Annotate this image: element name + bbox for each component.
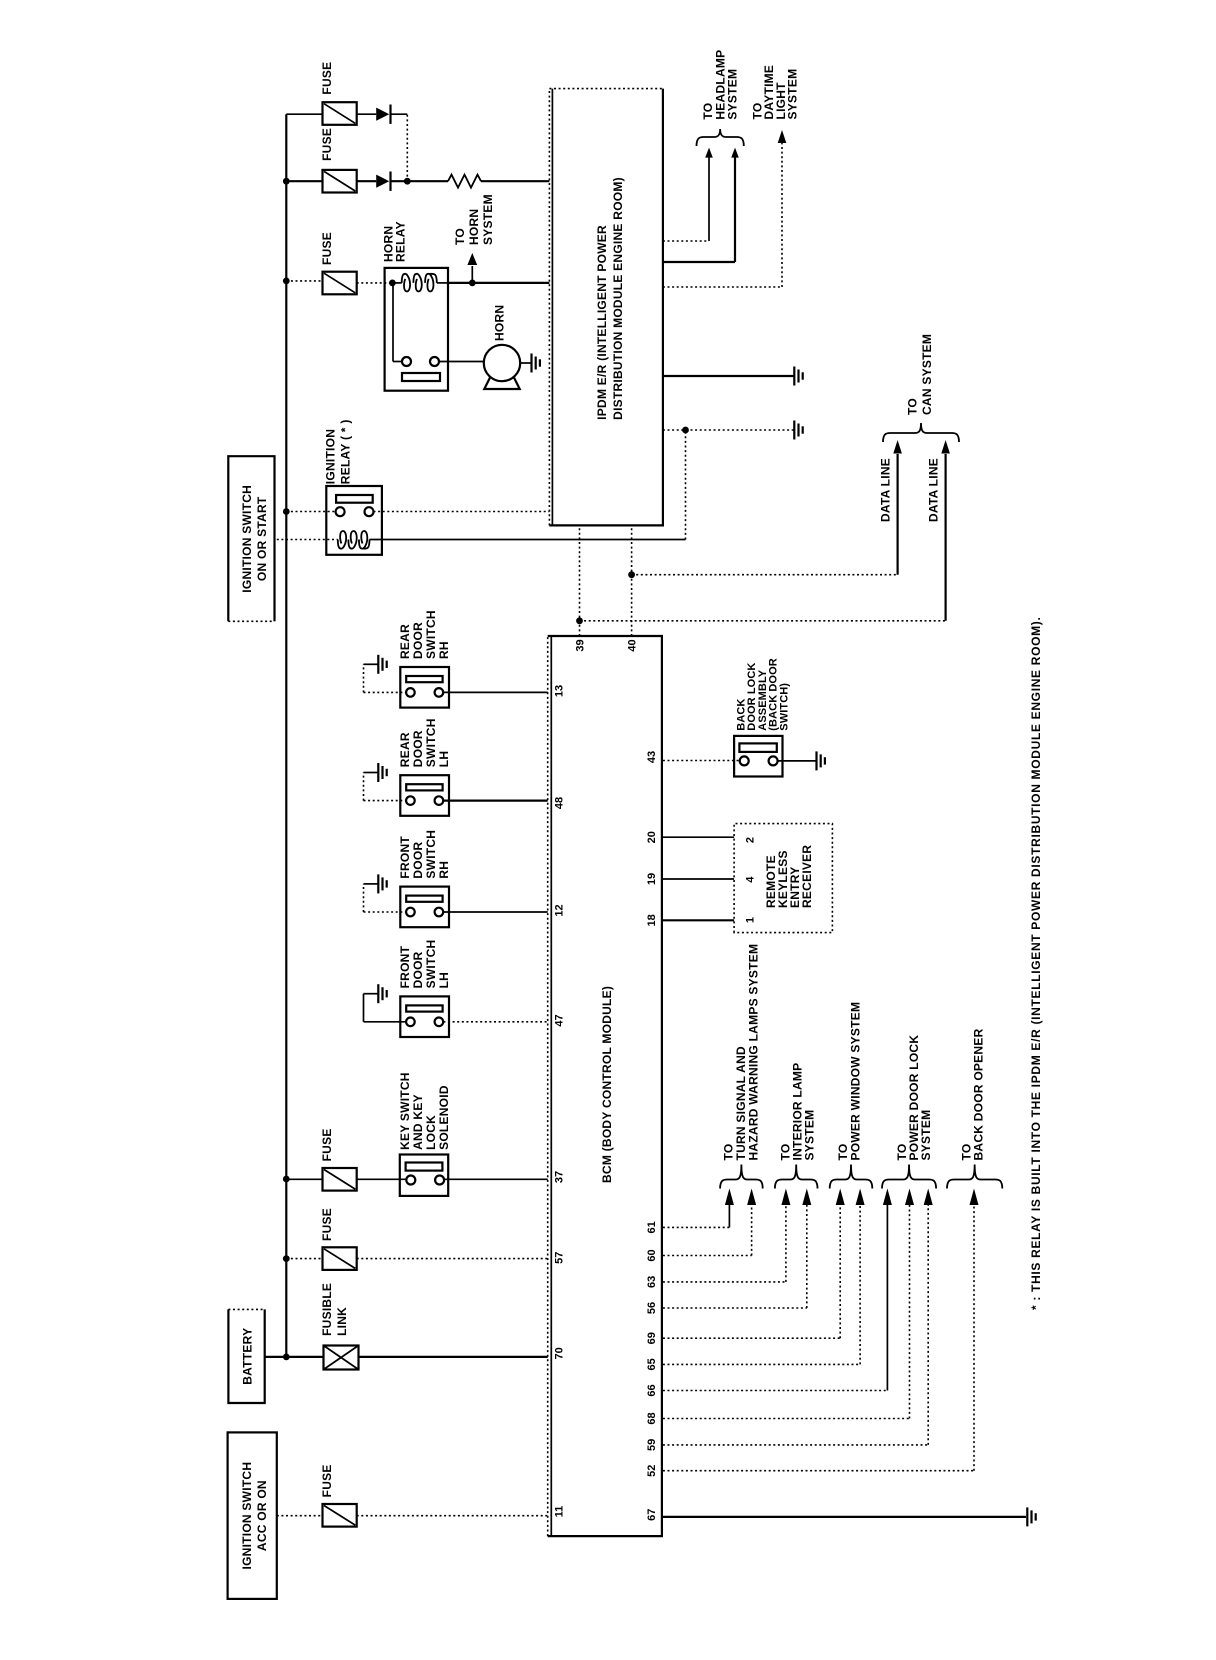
svg-text:FUSE: FUSE xyxy=(320,62,334,95)
wire bus to ignition relay contact xyxy=(286,511,335,513)
svg-text:DOOR: DOOR xyxy=(411,842,425,879)
wire IPDM to daytime arrow xyxy=(663,286,782,288)
front door switch RH xyxy=(400,887,449,928)
wire data line 1 to CAN arrow xyxy=(896,454,898,575)
svg-text:IGNITION: IGNITION xyxy=(324,429,338,484)
svg-text:HORN: HORN xyxy=(467,209,481,245)
arrow daytime light xyxy=(778,130,787,143)
svg-text:SWITCH: SWITCH xyxy=(424,830,438,879)
wire fuse to key switch xyxy=(357,1178,406,1180)
wire rear door switch LH to ground xyxy=(364,800,406,802)
svg-text:SYSTEM: SYSTEM xyxy=(919,1110,933,1161)
brace turn signal group xyxy=(720,1165,763,1189)
wire BCM pin 65 run to arrow xyxy=(859,1203,861,1364)
arrow pin 65 xyxy=(856,1189,865,1206)
svg-text:IPDM E/R (INTELLIGENT POWER: IPDM E/R (INTELLIGENT POWER xyxy=(595,225,609,420)
arrow pin 59 xyxy=(924,1189,933,1206)
svg-text:LOCK: LOCK xyxy=(424,1115,438,1150)
svg-text:DATA LINE: DATA LINE xyxy=(927,458,941,522)
wire rear door switch RH to ground xyxy=(364,691,406,693)
wire to horn system arrow xyxy=(471,266,473,283)
node bus-ignition-relay junction xyxy=(283,508,290,515)
svg-text:REAR: REAR xyxy=(398,732,412,767)
ground (front door switch RH) xyxy=(377,874,379,893)
ground (BCM pin 67) xyxy=(1026,1507,1028,1526)
BCM (body control module) box xyxy=(548,636,662,1536)
svg-text:AND KEY: AND KEY xyxy=(411,1094,425,1150)
svg-text:18: 18 xyxy=(646,914,658,926)
wire BCM pin 66 run to arrow xyxy=(886,1203,888,1391)
node bus-key-switch-fuse junction xyxy=(283,1176,290,1183)
svg-text:40: 40 xyxy=(627,639,639,651)
wire bus to fusible link xyxy=(286,1356,323,1358)
svg-text:DOOR: DOOR xyxy=(411,951,425,988)
svg-text:12: 12 xyxy=(553,904,565,916)
ground (IPDM 1) xyxy=(793,367,795,386)
wire fusible link to BCM pin 70 xyxy=(359,1356,548,1358)
front door switch LH xyxy=(400,996,449,1037)
fuse (ignition ACC) xyxy=(323,1504,357,1527)
svg-text:LH: LH xyxy=(437,751,451,768)
node bus-fuse3 junction xyxy=(283,278,290,285)
fuse (diode 1) xyxy=(323,102,357,125)
wire front door switch RH to ground xyxy=(364,911,406,913)
ground (rear door switch RH) xyxy=(377,655,379,674)
wire BCM pin18 to receiver pin1 xyxy=(663,919,734,921)
svg-text:IGNITION SWITCH: IGNITION SWITCH xyxy=(240,1462,254,1570)
wire IPDM ground 2 xyxy=(663,429,794,431)
svg-text:57: 57 xyxy=(553,1252,565,1264)
svg-text:DOOR: DOOR xyxy=(411,622,425,659)
wire BCM pin 67 to ground xyxy=(663,1516,1026,1518)
node battery junction xyxy=(283,1354,290,1361)
wire horn relay to IPDM xyxy=(448,282,549,284)
wire BCM pin40 to IPDM xyxy=(631,525,633,636)
node horn relay coil junction xyxy=(389,280,396,287)
svg-text:POWER WINDOW SYSTEM: POWER WINDOW SYSTEM xyxy=(849,1002,863,1161)
brace power window group xyxy=(830,1165,873,1189)
wire BCM pin 68 drop xyxy=(663,1418,910,1420)
IPDM E/R box xyxy=(549,89,663,526)
svg-text:TO: TO xyxy=(453,228,467,245)
node bus-fuse57 junction xyxy=(283,1255,290,1262)
wire data line 2 to CAN arrow xyxy=(944,454,946,621)
svg-text:47: 47 xyxy=(553,1014,565,1026)
wire ignition relay contact to IPDM xyxy=(374,511,550,513)
svg-text:70: 70 xyxy=(553,1347,565,1359)
svg-text:KEY SWITCH: KEY SWITCH xyxy=(398,1072,412,1150)
svg-text:SWITCH: SWITCH xyxy=(424,718,438,767)
svg-text:56: 56 xyxy=(646,1302,658,1314)
wire resistor to IPDM xyxy=(481,180,549,182)
svg-text:39: 39 xyxy=(575,639,587,651)
wire data line 2 drop xyxy=(580,620,946,622)
wire BCM pin 59 run to arrow xyxy=(927,1203,929,1445)
ignition switch ACC or ON box xyxy=(228,1432,277,1599)
wire diode1 down xyxy=(391,113,408,115)
svg-text:BCM (BODY CONTROL MODULE): BCM (BODY CONTROL MODULE) xyxy=(600,986,614,1183)
wire battery power bus xyxy=(285,114,287,1357)
svg-text:IGNITION SWITCH: IGNITION SWITCH xyxy=(240,485,254,593)
svg-text:CAN SYSTEM: CAN SYSTEM xyxy=(920,334,934,415)
svg-text:20: 20 xyxy=(646,831,658,843)
arrow pin 66 xyxy=(883,1189,892,1206)
svg-text:43: 43 xyxy=(646,751,658,763)
brace CAN system xyxy=(883,423,959,442)
wire battery to bus xyxy=(265,1356,287,1358)
svg-text:HAZARD WARNING LAMPS SYSTEM: HAZARD WARNING LAMPS SYSTEM xyxy=(747,944,761,1161)
wire BCM pin 66 drop xyxy=(663,1390,888,1392)
diode D2 xyxy=(376,175,389,188)
svg-text:RH: RH xyxy=(437,861,451,879)
fuse (BCM pin 57) xyxy=(323,1247,357,1270)
svg-text:4: 4 xyxy=(745,876,757,883)
svg-text:RH: RH xyxy=(437,641,451,659)
svg-text:BATTERY: BATTERY xyxy=(241,1328,255,1385)
wire front door switch RH to BCM pin 12 xyxy=(443,911,547,913)
ground (IPDM 2) xyxy=(793,421,795,440)
svg-text:ON OR START: ON OR START xyxy=(255,496,269,581)
node bus-fuse2 junction xyxy=(283,178,290,185)
wire BCM pin19 to receiver pin4 xyxy=(663,878,734,880)
wire diode1 to diode2 node xyxy=(406,114,408,181)
svg-text:2: 2 xyxy=(745,837,757,843)
svg-text:FUSE: FUSE xyxy=(320,1464,334,1497)
arrow pin 52 xyxy=(970,1189,979,1206)
wire horn to ground xyxy=(520,362,531,364)
wire IPDM to headlamp arrow 2 xyxy=(663,261,735,263)
svg-text:REAR: REAR xyxy=(398,624,412,659)
svg-text:* : THIS RELAY IS BUILT INTO T: * : THIS RELAY IS BUILT INTO THE IPDM E/… xyxy=(1029,617,1043,1311)
svg-text:SYSTEM: SYSTEM xyxy=(726,69,740,120)
wire BCM pin 63 run to arrow xyxy=(785,1203,787,1282)
horn relay contacts xyxy=(402,357,411,366)
wire ignition relay coil down xyxy=(370,539,686,541)
wire horn relay contact branch xyxy=(392,283,394,362)
svg-text:69: 69 xyxy=(646,1332,658,1344)
brace interior lamp group xyxy=(775,1165,818,1189)
wire BCM pin 69 run to arrow xyxy=(839,1203,841,1338)
wire BCM pin 65 drop xyxy=(663,1363,860,1365)
svg-text:SWITCH): SWITCH) xyxy=(778,683,790,731)
arrow pin 69 xyxy=(836,1189,845,1206)
wire BCM pin20 to receiver pin2 xyxy=(663,836,734,838)
svg-text:BACK DOOR OPENER: BACK DOOR OPENER xyxy=(972,1028,986,1160)
wire ignition relay coil to ground stem xyxy=(685,430,687,540)
horn relay box xyxy=(385,268,448,391)
wire bus to fuse3 xyxy=(286,280,322,282)
svg-text:SWITCH: SWITCH xyxy=(424,940,438,989)
wire bus to key-switch fuse xyxy=(286,1178,322,1180)
wire BCM pin 60 run to arrow xyxy=(751,1203,753,1256)
svg-text:48: 48 xyxy=(553,797,565,809)
wire bus end to fuse1 xyxy=(286,113,322,115)
svg-text:37: 37 xyxy=(553,1171,565,1183)
wire BCM pin 63 drop xyxy=(663,1281,786,1283)
fuse (diode 2) xyxy=(323,170,357,193)
svg-text:SOLENOID: SOLENOID xyxy=(437,1085,451,1150)
svg-text:FRONT: FRONT xyxy=(398,945,412,988)
svg-text:DOOR: DOOR xyxy=(411,730,425,767)
wire BCM pin 61 run to arrow xyxy=(728,1203,730,1227)
wire BCM pin 52 run to arrow xyxy=(973,1203,975,1471)
wire BCM pin 60 drop xyxy=(663,1255,752,1257)
key switch and key lock solenoid xyxy=(400,1155,448,1196)
ignition relay coil xyxy=(338,531,370,549)
node horn branch xyxy=(469,280,476,287)
wire rear door switch LH to BCM pin 48 xyxy=(443,799,547,801)
brace back door opener group xyxy=(947,1165,1002,1189)
remote keyless entry receiver box xyxy=(734,824,832,933)
svg-text:FUSE: FUSE xyxy=(320,1208,334,1241)
svg-text:LINK: LINK xyxy=(335,1307,349,1336)
svg-text:FUSE: FUSE xyxy=(320,232,334,265)
fuse (key switch) xyxy=(323,1168,357,1191)
svg-text:SYSTEM: SYSTEM xyxy=(786,69,800,120)
wire IPDM ground 1 xyxy=(663,375,794,377)
ground (horn) xyxy=(530,354,532,373)
wire fuse to BCM pin 11 xyxy=(357,1515,548,1517)
resistor xyxy=(448,175,481,188)
wire BCM pin 59 drop xyxy=(663,1444,928,1446)
svg-text:RELAY ( * ): RELAY ( * ) xyxy=(339,419,353,484)
rear door switch RH xyxy=(400,667,449,708)
svg-text:RELAY: RELAY xyxy=(394,221,408,262)
wire rear door switch RH to BCM pin 13 xyxy=(443,691,547,693)
arrow pin 61 xyxy=(725,1189,734,1206)
wire IPDM to headlamp arrow 1 xyxy=(663,240,709,242)
wire BCM pin 52 drop xyxy=(663,1470,974,1472)
diode D1 xyxy=(376,108,389,121)
wire fuse3 to horn relay coil xyxy=(357,282,393,284)
wire BCM pin43 to back door switch xyxy=(663,760,740,762)
wire bus to fuse2 xyxy=(286,180,322,182)
svg-text:61: 61 xyxy=(646,1221,658,1233)
svg-text:FUSE: FUSE xyxy=(320,128,334,161)
svg-text:TO: TO xyxy=(906,398,920,415)
svg-text:19: 19 xyxy=(646,873,658,885)
svg-text:RECEIVER: RECEIVER xyxy=(800,845,814,908)
wire ign switch to ignition relay coil xyxy=(277,539,338,541)
node data line 2 junction xyxy=(576,617,583,624)
svg-text:FUSE: FUSE xyxy=(320,1128,334,1161)
wire data line 1 drop xyxy=(632,574,898,576)
rear door switch LH xyxy=(400,775,449,816)
horn relay coil xyxy=(402,274,437,292)
svg-text:59: 59 xyxy=(646,1439,658,1451)
svg-text:67: 67 xyxy=(646,1509,658,1521)
wire fuse2 to diode2 xyxy=(357,180,377,182)
wire BCM pin 56 drop xyxy=(663,1307,807,1309)
svg-text:68: 68 xyxy=(646,1412,658,1424)
fusible link xyxy=(324,1346,359,1370)
wire BCM pin 68 run to arrow xyxy=(909,1203,911,1419)
wire diode2 to resistor xyxy=(391,180,449,182)
node diode junction xyxy=(404,178,411,185)
horn xyxy=(484,345,520,381)
ignition switch ON or START box xyxy=(228,456,274,621)
svg-text:FUSIBLE: FUSIBLE xyxy=(320,1283,334,1336)
wire back door switch to ground xyxy=(778,760,817,762)
ground (back door switch) xyxy=(815,751,817,770)
wire ign-acc to fuse xyxy=(277,1515,323,1517)
ground (rear door switch LH) xyxy=(377,763,379,782)
node coil-ground junction xyxy=(682,427,689,434)
svg-text:66: 66 xyxy=(646,1384,658,1396)
svg-text:52: 52 xyxy=(646,1465,658,1477)
arrow headlamp 2 xyxy=(731,148,739,158)
svg-text:HORN: HORN xyxy=(493,305,507,341)
wire horn relay to horn xyxy=(439,361,484,363)
svg-text:ACC OR ON: ACC OR ON xyxy=(255,1480,269,1551)
arrow pin 63 xyxy=(781,1189,790,1206)
ignition relay contacts xyxy=(336,495,373,503)
svg-text:1: 1 xyxy=(745,917,757,923)
svg-text:13: 13 xyxy=(553,685,565,697)
wire BCM pin 61 drop xyxy=(663,1226,730,1228)
svg-text:DATA LINE: DATA LINE xyxy=(879,458,893,522)
wire fuse to BCM pin 57 xyxy=(357,1258,548,1260)
wire key switch to BCM pin 37 xyxy=(444,1178,548,1180)
arrow to CAN (data line 2) xyxy=(941,440,950,454)
battery xyxy=(228,1309,264,1403)
brace power door lock group xyxy=(882,1165,936,1189)
arrow to horn system xyxy=(467,253,477,265)
arrow pin 56 xyxy=(802,1189,811,1206)
back door lock assembly box xyxy=(734,736,782,777)
wire bus to fuse57 xyxy=(286,1258,322,1260)
fuse (horn relay) xyxy=(323,272,357,295)
ignition relay box xyxy=(326,486,382,555)
brace headlamp system xyxy=(697,129,744,146)
ground (front door switch LH) xyxy=(377,984,379,1003)
arrow headlamp 1 xyxy=(705,148,713,158)
wire front door switch LH to ground xyxy=(364,1021,406,1023)
wire BCM pin 69 drop xyxy=(663,1337,840,1339)
wire front door switch LH to BCM pin 47 xyxy=(443,1021,547,1023)
arrow pin 60 xyxy=(747,1189,756,1206)
svg-text:60: 60 xyxy=(646,1249,658,1261)
svg-text:SWITCH: SWITCH xyxy=(424,610,438,659)
wire horn relay coil out xyxy=(437,282,448,284)
wire BCM pin39 to IPDM xyxy=(579,525,581,636)
svg-text:65: 65 xyxy=(646,1358,658,1370)
wire BCM pin 56 run to arrow xyxy=(806,1203,808,1308)
svg-text:SYSTEM: SYSTEM xyxy=(803,1110,817,1161)
svg-text:11: 11 xyxy=(553,1506,565,1518)
arrow pin 68 xyxy=(905,1189,914,1206)
svg-text:DISTRIBUTION MODULE ENGINE ROO: DISTRIBUTION MODULE ENGINE ROOM) xyxy=(611,177,625,420)
node data line 1 junction xyxy=(628,571,635,578)
svg-text:LH: LH xyxy=(437,972,451,989)
arrow to CAN (data line 1) xyxy=(893,440,902,454)
svg-text:SYSTEM: SYSTEM xyxy=(481,194,495,245)
wire fuse1 to diode1 xyxy=(357,113,377,115)
svg-text:63: 63 xyxy=(646,1276,658,1288)
svg-text:FRONT: FRONT xyxy=(398,836,412,879)
